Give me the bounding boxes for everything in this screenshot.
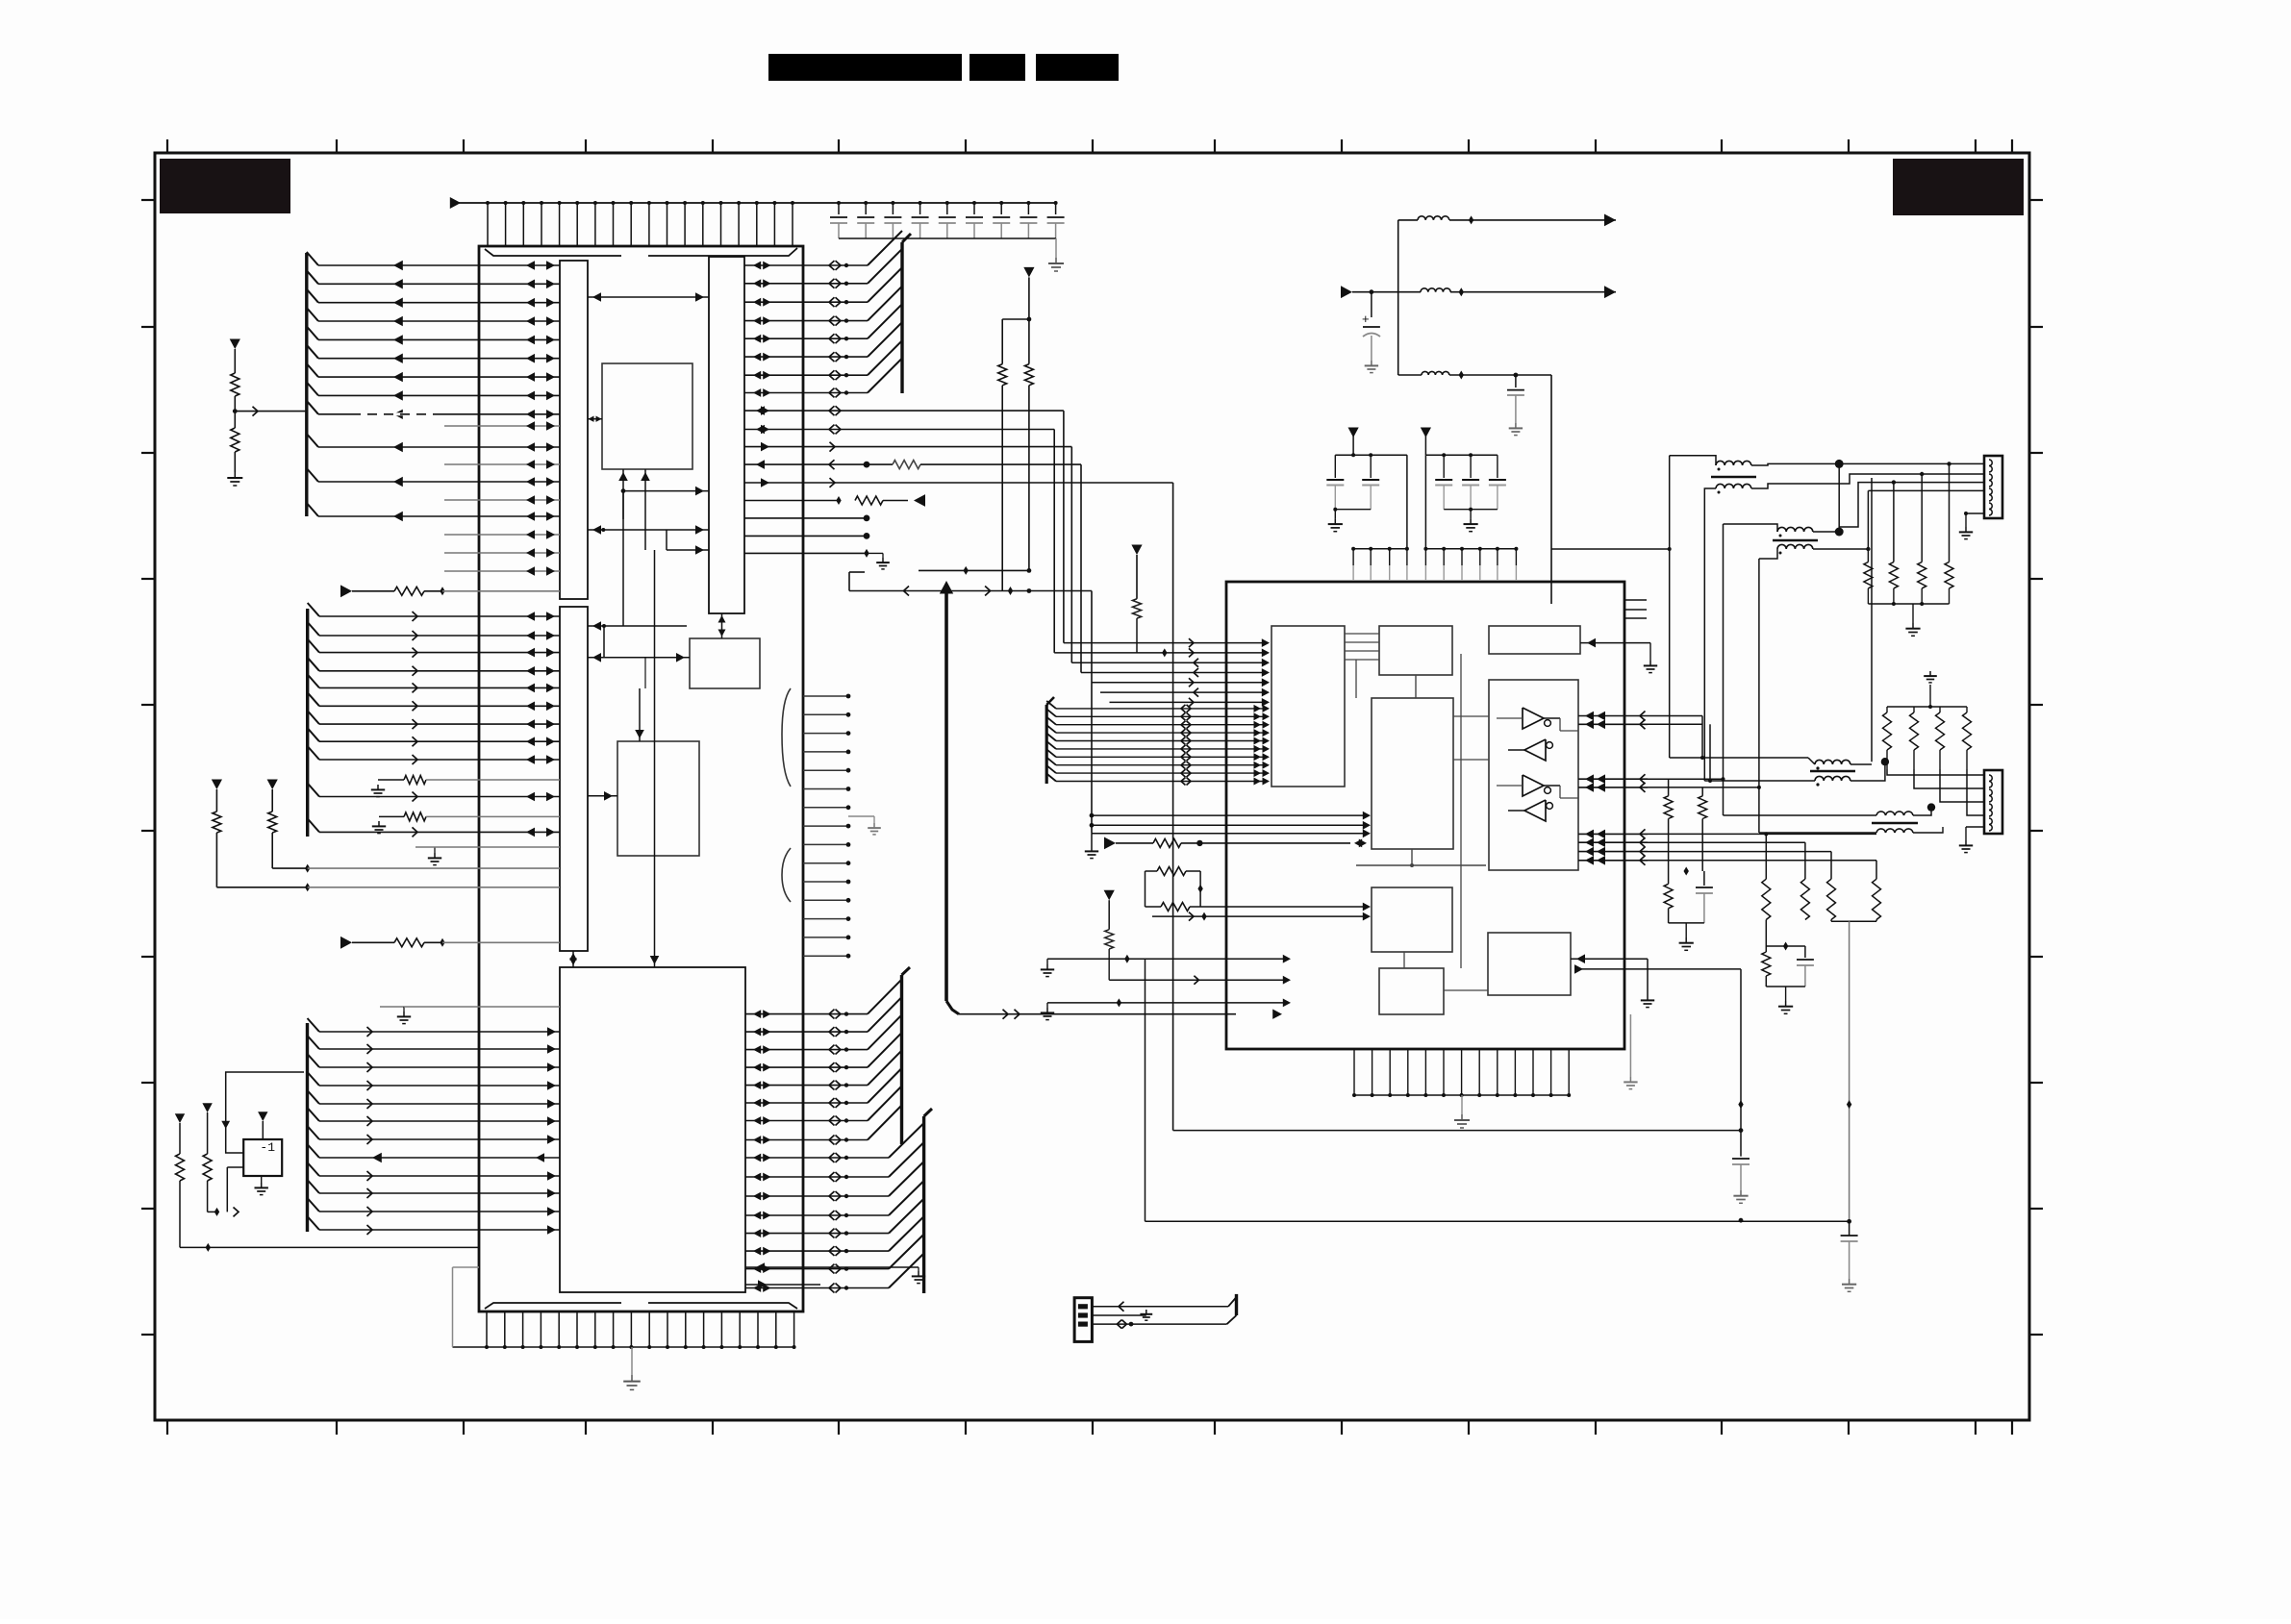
wire U2 left entry 6 <box>1110 701 1229 703</box>
pull-down resistor R4 <box>267 780 278 790</box>
address bus A ripper <box>305 253 308 516</box>
wire bus-B line 1 <box>308 622 319 636</box>
filter cap C at L3 <box>1514 373 1519 378</box>
connector J2 ground <box>1966 512 1984 514</box>
connector bus stub bar <box>1235 1294 1238 1315</box>
IC U1 top chamfer marks <box>485 249 621 256</box>
svg-text:-1: -1 <box>260 1140 275 1155</box>
wire bus-C line 9 <box>308 1180 320 1193</box>
U1 internal bus arrow col1-col3 <box>588 296 709 298</box>
U1 arrow box B to box C vertical <box>639 688 641 741</box>
diamond tap on 1922 vertical <box>1847 1100 1851 1109</box>
bank B bottom staircase <box>1887 769 1984 775</box>
inductor L1 top branch <box>1418 216 1449 220</box>
thick bus bottom bend to horizontal <box>946 1001 959 1014</box>
U2 block F input wire with ground <box>1580 642 1650 644</box>
wire bus-C line 6 <box>308 1126 320 1139</box>
U1 bottom ground <box>631 1347 633 1375</box>
U2 interconnect C right to G <box>1453 715 1489 717</box>
termination resistor bank A <box>1893 483 1895 562</box>
wire y614 horizontal crossing <box>849 590 1092 592</box>
U2 block F top right <box>1489 626 1580 654</box>
wire bus-B line 7 <box>308 728 319 741</box>
U2 interconnect vertical long <box>1460 654 1462 968</box>
T1 secondary to J2 row2 <box>1751 474 1984 488</box>
wire U1 right row 1 <box>744 283 868 285</box>
wire bus-B line 8 <box>308 746 319 760</box>
supply arrow and resistor x1182 <box>1131 545 1142 556</box>
U2 block D <box>1372 887 1452 952</box>
data bus B ripper <box>306 609 309 837</box>
U1 pin column block 2 <box>560 607 588 951</box>
wire mem bus1 line 2 <box>745 1049 868 1051</box>
termination N3 resistors <box>1830 852 1832 880</box>
wire bus-A line 11 <box>307 503 318 516</box>
U1 top supply pin stubs <box>487 203 489 246</box>
wire U2 left entry 2 <box>1071 662 1228 663</box>
wire bus-C line 0 <box>308 1018 320 1032</box>
frame grid tick marks top/bottom <box>166 139 168 153</box>
wire mem bus1 line 1 <box>745 1031 868 1033</box>
connector J1 wire 1 <box>1092 1306 1228 1308</box>
-1 box supply arrow <box>258 1112 267 1121</box>
ground for capacitor bank <box>1055 238 1057 258</box>
wire bus-A line 7 <box>307 382 318 395</box>
wire bus-C line 11 <box>308 1216 320 1230</box>
wire bus-B line 4 <box>308 674 319 687</box>
U2 block H <box>1488 933 1571 995</box>
U2 interconnect C bottom <box>1411 849 1413 865</box>
stub ground above bus C <box>380 1006 404 1008</box>
wire bus-B line 9 <box>308 784 319 797</box>
wire y593 with diamond <box>919 569 1029 571</box>
wire bus-A line 4 <box>307 326 318 339</box>
wire U2 bus entry 6 <box>1046 749 1056 757</box>
wire mem bus2 line 0 <box>745 1157 889 1159</box>
T2 primary left feeds <box>1724 524 1778 532</box>
wire U1 right row 7 <box>744 392 868 394</box>
IC U1 main video processor outline <box>479 246 803 1312</box>
bottom-left wires into U2 <box>1047 958 1287 960</box>
N4 long vertical with cap <box>1740 1019 1742 1157</box>
R5 vertical resistor <box>175 1113 185 1123</box>
electrolytic cap C+ <box>1371 292 1372 317</box>
IC U2 audio processor outline <box>1226 582 1624 1049</box>
redacted title text blocks <box>768 54 962 81</box>
U1 internal wire to box B <box>588 657 690 659</box>
U1 pin column block 3 <box>709 257 744 613</box>
wire U2 bus entry 4 <box>1046 734 1056 741</box>
wire mem bus1 line 3 <box>745 1066 868 1068</box>
U2 bottom ground <box>1461 1095 1463 1114</box>
U2 right edge lower vertical <box>1629 1014 1631 1077</box>
wire bus-B line 2 <box>308 639 319 653</box>
wire bus-C line 2 <box>308 1054 320 1067</box>
U1 memory block bidir arrow col <box>644 658 646 688</box>
wire mem bus1 line 4 <box>745 1085 868 1087</box>
wire bus-B line 5 <box>308 692 319 706</box>
U1 inner right bracket lower <box>782 848 791 902</box>
U2 right quad outputs <box>1578 833 1648 835</box>
bank B top rail <box>1887 706 1967 708</box>
U2 bottom right wires <box>1624 958 1648 960</box>
wire U1 right row 0 <box>744 264 868 266</box>
wire right y427 long <box>744 410 846 412</box>
T2 secondary to J2 row4 <box>1813 548 1868 550</box>
svg-text:+: + <box>1362 312 1370 326</box>
stub diamond ground y575 <box>744 552 865 554</box>
termination N1 resistors <box>1668 779 1670 796</box>
wire U2 bus entry 8 <box>1046 765 1056 773</box>
border frame <box>155 153 2029 1420</box>
resistor feedback loop R9/R10 <box>1145 871 1146 907</box>
connector J1 wire 3 <box>1092 1323 1226 1325</box>
U1 internal RAM box A <box>602 363 692 469</box>
N3 long drop wire <box>1849 921 1850 1221</box>
wire bus-C line 5 <box>308 1108 320 1121</box>
inverter -1 box <box>243 1139 282 1176</box>
ground-terminated row y811 <box>377 785 379 789</box>
U1 internal control box B <box>690 638 760 688</box>
connector J3 coils <box>1984 770 2002 834</box>
pull-up resistor divider R1/R2 <box>234 349 236 373</box>
U2 block B <box>1379 626 1452 675</box>
termination N2 resistors <box>1765 834 1767 879</box>
pull-down resistor R3 <box>212 780 222 790</box>
wire right y465 output long <box>744 446 846 448</box>
U2 bottom pin stubs <box>1353 1049 1355 1095</box>
wire L3 to down vertical <box>1550 375 1552 604</box>
wire U2 left entry 0 <box>1064 642 1228 644</box>
wire bus-B line 6 <box>308 711 319 724</box>
input with series resistor into U2 <box>1104 837 1116 850</box>
wire mem bus1 line 5 <box>745 1102 868 1104</box>
thick vertical bus with up arrow <box>944 588 948 1001</box>
wire U1 right row 3 <box>744 320 868 322</box>
wire right y520 resistor output <box>744 500 839 502</box>
supply inductor branch vertical <box>1397 220 1399 375</box>
termination N1 RC to ground <box>1684 867 1689 876</box>
U2 buffer wiring <box>1497 717 1523 719</box>
U2 right output pair 2 <box>1578 778 1648 780</box>
resistor pair mid R8 with supply <box>1023 267 1034 278</box>
wire mem bus2 line 3 <box>745 1214 889 1216</box>
stub ground right of bus B <box>434 847 436 853</box>
inductor L3 bottom branch <box>1422 371 1449 375</box>
U1 memory aux pin y1318 with ground <box>745 1266 846 1268</box>
ground above bank B <box>1929 671 1931 676</box>
wire bus-A line 1 <box>307 270 318 284</box>
U1 bottom wrap-around wire <box>452 1267 454 1347</box>
wire U1 right row 2 <box>744 301 868 303</box>
U2 interconnect D-E region <box>1403 952 1405 968</box>
wire right y483 with series resistor <box>744 463 835 465</box>
wire mem bus1 line 7 <box>745 1139 868 1141</box>
wire bus-A line 6 <box>307 363 318 377</box>
N4 feed from above <box>1740 969 1742 1019</box>
frame grid tick marks left/right <box>141 199 155 201</box>
wire U2 left entry 1 <box>1054 652 1228 654</box>
series input resistor row y980 <box>340 937 352 949</box>
U1 left short stub pins upper <box>444 425 560 427</box>
transformer T2 <box>1777 527 1813 532</box>
wire U2 left entry 4 <box>1092 682 1229 684</box>
T4 wiring <box>1724 814 1877 816</box>
wire mem bus2 line 7 <box>745 1287 889 1289</box>
wire bus-A line 5 <box>307 345 318 359</box>
U1 internal memory array block <box>560 967 745 1292</box>
U2 interconnect A down <box>1355 660 1357 698</box>
T3 right wiring <box>1850 763 1872 765</box>
U2 buffer triangle 3 <box>1523 775 1544 796</box>
U2 no-connect dashes <box>1625 599 1647 601</box>
T1 secondary to J2 row1 <box>1751 463 1984 465</box>
sheet zone label box top-right <box>1893 159 2024 215</box>
wire bus-C line 3 <box>308 1072 320 1086</box>
T3 left staircase from U2 outputs <box>1701 716 1703 759</box>
wire bus-A line 0 <box>307 252 318 265</box>
horizontal wire y1175 <box>1173 1130 1741 1132</box>
transformer T4 <box>1876 812 1913 815</box>
U1 internal arrow col1-boxA <box>588 418 602 420</box>
U1 pin column block 1 <box>560 261 588 599</box>
inductor L2 mid branch <box>1421 288 1450 292</box>
bypass group 2 supply arrow <box>1421 428 1431 438</box>
wire U2 bus entry 0 <box>1046 701 1056 709</box>
resistor pair mid R7 <box>1001 319 1003 364</box>
series input resistor row y614 <box>340 585 352 597</box>
U2 right output pair 1 <box>1578 715 1648 717</box>
wire mem bus2 line 5 <box>745 1250 889 1252</box>
U1 internal wire row y551 <box>588 529 709 531</box>
wire U2 bus entry 3 <box>1046 725 1056 733</box>
U2 top stub rail 1 <box>1353 548 1407 550</box>
wire bus-C line 8 <box>308 1162 320 1176</box>
wire right y446 long <box>744 429 846 431</box>
gray ground stub right of U1 <box>848 815 874 817</box>
IC U1 bottom chamfer marks <box>485 1303 621 1309</box>
wire bus-A line 9 <box>307 434 318 447</box>
bypass group 1 caps <box>1335 454 1407 456</box>
U1 right no-connect stubs with dots <box>803 695 846 697</box>
U1 internal wire row y572 <box>666 530 667 550</box>
wire bus-B line 0 <box>308 603 319 616</box>
U2 interconnect A-B <box>1345 633 1379 635</box>
wire mem bus1 line 6 <box>745 1120 868 1122</box>
U1 long vertical col feed to memory block <box>654 550 656 967</box>
U1 inner right bracket upper <box>782 688 791 787</box>
wire bus-C line 1 <box>308 1036 320 1049</box>
bottom connector J1 <box>1074 1298 1092 1342</box>
resistor bank B 4x <box>1886 707 1888 712</box>
connector J1 wire 2 ground <box>1092 1314 1145 1316</box>
U1 boxA bottom feed arrows <box>622 469 624 519</box>
U1 top supply rail with input arrow <box>459 202 1056 204</box>
T1 primary left feeds <box>1670 456 1716 465</box>
R6 vertical resistor <box>202 1103 212 1112</box>
long verticals down <box>1145 959 1146 1221</box>
bus C ripper <box>306 1023 309 1232</box>
ground-terminated row y849 <box>378 821 380 826</box>
-1 box ground <box>261 1176 263 1183</box>
-1 box output wire <box>227 1166 243 1168</box>
wire U2 bus entry 9 <box>1046 774 1056 782</box>
bus-A dashed segment <box>351 412 438 415</box>
U2 top stub rail 2 <box>1424 455 1426 549</box>
wire mem bus2 line 2 <box>745 1195 889 1197</box>
wire U2 bus entry 5 <box>1046 741 1056 749</box>
decoupling capacitor bank C-bank <box>838 203 840 214</box>
U1 internal wire row y651 <box>588 625 687 627</box>
wire U1 right row 4 <box>744 337 868 339</box>
U1 bottom pin stubs to ground rail <box>486 1312 488 1347</box>
sheet zone label box top-left <box>160 159 290 213</box>
U2 block C DSP core <box>1372 698 1453 849</box>
wire bus-C line 4 <box>308 1090 320 1104</box>
wire bus-A line 8 <box>307 401 318 414</box>
U1 wire col2 to box C <box>588 795 617 797</box>
-1 box input wire <box>226 1072 304 1153</box>
N3 bottom cap and ground <box>1841 1235 1858 1237</box>
transformer T1 <box>1716 461 1751 465</box>
U2 buffer triangle 1 <box>1523 708 1544 729</box>
horizontal joiner y1270 <box>1145 1220 1850 1222</box>
hatched bus ripper into U2 <box>1045 705 1048 784</box>
U1 col2-memory double arrow <box>572 951 574 967</box>
wire bus-B line 3 <box>308 658 319 671</box>
wire bus-A line 10 <box>307 468 318 482</box>
wire mem bus2 line 6 <box>745 1268 889 1270</box>
wire mem bus2 line 4 <box>745 1233 889 1235</box>
T2 secondary to J2 row3 <box>1813 531 1839 533</box>
vertical feed x1135 down to gnd trio <box>1091 591 1093 834</box>
U2 interconnect B-C vertical <box>1415 675 1417 698</box>
U2 buffer triangle 2 <box>1524 739 1546 761</box>
bypass group 2 caps <box>1425 454 1498 456</box>
wire U1 right row 6 <box>744 374 868 376</box>
wire U2 bus entry 1 <box>1046 709 1056 716</box>
termination N2 RC to ground <box>1765 920 1767 947</box>
transformer T3 <box>1815 760 1850 764</box>
wire U2 left entry 5 <box>1100 691 1228 693</box>
wire U2 bus entry 7 <box>1046 758 1056 765</box>
wire right y502 long to connector region <box>744 482 846 484</box>
connector J3 ground <box>1966 826 1984 828</box>
wire bus-A line 2 <box>307 289 318 303</box>
U1 internal box C <box>617 741 699 856</box>
U2 block E <box>1379 968 1444 1014</box>
wire mem bus2 line 1 <box>745 1176 889 1178</box>
U1 internal wire boxA to col3 <box>623 490 709 492</box>
trio wires with ground into U2 block C <box>1092 814 1367 816</box>
wire mem bus1 line 0 <box>745 1013 868 1015</box>
U2 buffer triangle 4 <box>1524 800 1546 821</box>
U2 block A input interface <box>1271 626 1345 787</box>
wire bus-C line 7 <box>308 1144 320 1158</box>
connector J2 coils <box>1984 456 2002 518</box>
U1 arrow col3 to box B vertical <box>721 613 723 638</box>
wire bus-B line 10 <box>308 818 319 832</box>
stub dot y557 <box>744 535 865 537</box>
wire U2 left entry 3 <box>1081 672 1228 674</box>
wire U2 bus entry 2 <box>1046 717 1056 725</box>
input arrow mid branch <box>1341 286 1352 298</box>
stub dot y539 <box>744 517 865 519</box>
U2 block G output buffers <box>1489 680 1578 870</box>
U1 memory aux pin y1336 output <box>745 1284 820 1286</box>
bypass group 1 supply arrow <box>1348 428 1359 438</box>
wire U1 right row 5 <box>744 356 868 358</box>
supply arrow with resistor x1153 <box>1104 890 1115 901</box>
wire bus-A line 3 <box>307 308 318 321</box>
bypass group 1 right drop <box>1406 455 1408 549</box>
wire bus-C line 10 <box>308 1198 320 1212</box>
